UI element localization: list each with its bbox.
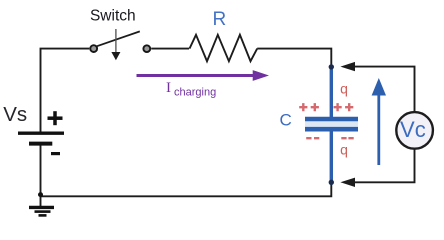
svg-text:Switch: Switch <box>90 8 136 25</box>
svg-text:q: q <box>340 81 348 97</box>
svg-text:I: I <box>166 80 171 96</box>
svg-text:Vc: Vc <box>400 117 426 142</box>
svg-text:C: C <box>280 110 292 129</box>
svg-text:charging: charging <box>174 87 216 99</box>
svg-text:R: R <box>213 9 227 30</box>
svg-text:q: q <box>340 142 348 158</box>
svg-text:Vs: Vs <box>3 103 27 126</box>
